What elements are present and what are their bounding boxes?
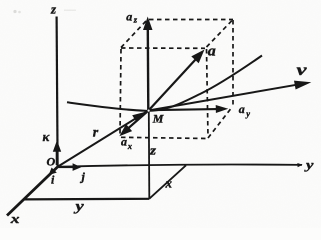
dashed box: top back edge (149, 19, 233, 21)
arrowhead y-axis (297, 163, 302, 167)
component a_z vertical arrow from M (147, 29, 150, 111)
dashed box: bottom front edge (121, 137, 208, 138)
dashed box: top front edge (121, 47, 205, 49)
dashed box: front left vertical edge (120, 49, 121, 135)
dashed box: top right edge (207, 20, 233, 47)
unit vector k on z-axis (56, 149, 59, 165)
component a_y horizontal arrow from M (149, 109, 218, 110)
position vector r from O to M (58, 112, 146, 167)
dashed box: bottom right diagonal edge (208, 107, 233, 139)
paper grain (0, 0, 1, 1)
dashed box: top left edge (121, 21, 146, 48)
y-coordinate segment on xy-plane (bottom horizontal) (25, 198, 150, 201)
white dot at junction M (148, 110, 150, 112)
component a_x arrow from M to lower-left (128, 111, 149, 129)
axis x (diagonal to lower-left) (7, 166, 59, 216)
velocity vector v from M (149, 85, 298, 111)
dashed box: right back vertical edge (232, 20, 234, 106)
dashed box: front right vertical edge (207, 49, 209, 137)
acceleration vector a from M (149, 59, 197, 111)
arrowhead r near M (132, 112, 146, 123)
unit vector i on x-axis (54, 167, 59, 171)
axis z (vertical line) (57, 17, 58, 167)
z-coordinate segment from M down to xy-plane (148, 111, 151, 199)
axis y (horizontal line to the right) (58, 165, 302, 167)
trajectory curve through M (67, 56, 262, 111)
faint smudge top-left (13, 10, 76, 14)
unit vector j on y-axis (59, 166, 75, 168)
x-coordinate segment from M' up-right to y-axis (149, 165, 186, 198)
